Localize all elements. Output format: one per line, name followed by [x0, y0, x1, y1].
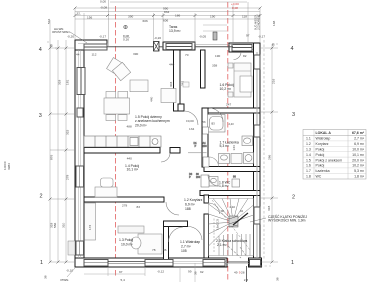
svg-text:1.7: 1.7: [306, 169, 311, 173]
svg-text:286: 286: [268, 155, 272, 160]
svg-text:49: 49: [234, 271, 238, 275]
svg-text:186: 186: [175, 14, 180, 18]
svg-text:303: 303: [169, 82, 173, 87]
svg-text:2,1 m²: 2,1 m²: [217, 243, 227, 247]
window: right wall bathroom: [254, 125, 260, 137]
svg-text:5,3 m²: 5,3 m²: [354, 169, 365, 173]
svg-text:278: 278: [122, 204, 127, 208]
armchair rotated a: [107, 58, 125, 76]
svg-text:-0,20: -0,20: [154, 36, 161, 40]
nightstand a: [228, 63, 233, 68]
svg-text:10,1 m²: 10,1 m²: [127, 168, 139, 172]
patio slider: bottom living thin line: [108, 260, 145, 262]
svg-text:112: 112: [92, 53, 97, 57]
svg-text:78: 78: [152, 248, 156, 252]
svg-text:WYSOKOŚCI MIN. 1,9m: WYSOKOŚCI MIN. 1,9m: [268, 218, 306, 223]
svg-text:181: 181: [66, 80, 70, 85]
svg-text:8,08: 8,08: [232, 6, 238, 10]
svg-text:4: 4: [39, 47, 42, 53]
sink wc: [232, 179, 240, 187]
svg-text:70: 70: [185, 53, 189, 57]
wall: right exterior: [254, 43, 261, 266]
porch steps top: [203, 24, 227, 26]
svg-text:20,0 m²: 20,0 m²: [352, 158, 365, 162]
svg-text:83: 83: [202, 120, 206, 124]
window: bottom room1.3 a: [84, 260, 108, 267]
svg-text:16x17,5: 16x17,5: [216, 219, 220, 230]
svg-text:1: 1: [291, 260, 294, 266]
window: left wall room1.3: [76, 241, 84, 255]
svg-text:10,2 m²: 10,2 m²: [352, 164, 365, 168]
wall: top window segment living: [163, 42, 195, 50]
wall: bathroom left: [202, 108, 208, 167]
desk 1.4: [95, 187, 117, 197]
bathtub: [208, 115, 226, 133]
svg-text:JEDNORODZ.: JEDNORODZ.: [258, 13, 261, 30]
porch step line top: [195, 46, 233, 48]
svg-text:310: 310: [62, 223, 66, 228]
dining chair b: [118, 92, 128, 99]
door: hallway to room1.4: [166, 202, 179, 215]
svg-text:1.3 Pokój: 1.3 Pokój: [119, 238, 133, 242]
door: entrance: [227, 261, 249, 263]
dim line top fourth: [75, 18, 260, 20]
dim ticks top: [74, 7, 262, 18]
svg-text:358: 358: [212, 64, 217, 68]
svg-text:Wiatrołap: Wiatrołap: [316, 137, 331, 141]
dining chair c: [106, 115, 116, 121]
svg-text:2: 2: [40, 194, 43, 200]
wall: bottom right stub: [249, 258, 262, 267]
svg-text:390: 390: [128, 15, 133, 19]
svg-text:10,0 m²: 10,0 m²: [121, 243, 133, 247]
svg-text:2,7 m²: 2,7 m²: [354, 137, 365, 141]
door: hallway to room1.3: [168, 227, 183, 242]
svg-text:440: 440: [127, 157, 132, 161]
svg-text:0,00: 0,00: [100, 0, 106, 4]
wall: top-right segment: [229, 43, 260, 52]
door: hallway to wc: [201, 175, 209, 187]
svg-text:Pokój: Pokój: [316, 164, 325, 168]
svg-text:6,9 m²: 6,9 m²: [354, 142, 365, 146]
svg-text:390: 390: [133, 52, 138, 56]
window: right wall bedroom: [254, 55, 260, 69]
svg-text:606: 606: [163, 19, 168, 23]
window: top-left living: [84, 44, 107, 50]
svg-text:200: 200: [203, 145, 208, 148]
svg-text:10,0 m²: 10,0 m²: [352, 148, 365, 152]
wall: bathroom/wc divider: [204, 167, 260, 172]
window: top-right bedroom: [232, 45, 252, 52]
svg-text:97: 97: [119, 270, 123, 274]
wall: wc bottom: [200, 191, 260, 196]
svg-text:3: 3: [292, 112, 295, 118]
svg-text:97: 97: [246, 34, 250, 38]
washer: [244, 153, 254, 164]
svg-text:PIWN.: PIWN.: [61, 278, 70, 282]
svg-text:3: 3: [39, 113, 42, 119]
svg-text:82: 82: [243, 54, 247, 58]
svg-text:247: 247: [226, 103, 231, 107]
door: room 1.6: [209, 108, 223, 122]
wall: stairs left: [204, 195, 209, 203]
extension lines: [74, 8, 76, 40]
wardrobe 1.3: [85, 203, 96, 240]
leader to stairs: [250, 218, 266, 222]
sink bathroom: [242, 136, 253, 146]
svg-text:-0,10: -0,10: [66, 269, 73, 273]
bed 1.6: [234, 63, 251, 97]
svg-text:Korytarz: Korytarz: [316, 142, 329, 146]
svg-text:OPUST.SPAN: OPUST.SPAN: [52, 30, 70, 34]
door: top porch: [234, 52, 242, 60]
svg-text:38: 38: [276, 277, 280, 281]
window: left wall living: [77, 68, 85, 95]
dining chair a: [106, 92, 116, 99]
door: living to room1.4: [161, 153, 170, 162]
porch pillar top: [213, 32, 217, 40]
window: left wall small: [77, 108, 83, 117]
svg-text:R: R: [50, 44, 53, 48]
svg-text:216: 216: [272, 79, 276, 84]
wall: hallway upper left: [201, 50, 206, 88]
svg-text:5,4: 5,4: [121, 278, 126, 282]
svg-text:WC: WC: [316, 175, 322, 179]
section line left: [115, 6, 117, 277]
wall: hallway hook: [178, 104, 184, 111]
svg-text:-0,17: -0,17: [258, 35, 265, 39]
svg-text:488: 488: [127, 125, 132, 129]
svg-text:2,43: 2,43: [229, 122, 235, 126]
wall: top-left segment: [75, 40, 107, 50]
svg-text:168: 168: [272, 21, 276, 26]
canopy dash a: [240, 247, 247, 257]
svg-text:92: 92: [200, 270, 204, 274]
wall: stairs left lower: [204, 214, 209, 258]
svg-text:R: R: [272, 43, 275, 47]
dim line top second: [75, 11, 260, 13]
svg-text:586: 586: [53, 223, 57, 228]
svg-text:86: 86: [163, 248, 167, 252]
stairs outline: [209, 199, 254, 256]
svg-text:105: 105: [181, 249, 187, 253]
svg-text:1.1: 1.1: [306, 137, 311, 141]
wall: room1.3/wiatrolap divider: [164, 221, 169, 264]
svg-text:1.1 Wiatrołap: 1.1 Wiatrołap: [180, 240, 200, 244]
svg-text:-0,08: -0,08: [100, 6, 107, 10]
svg-text:6,9 m²: 6,9 m²: [185, 203, 195, 207]
svg-text:1.3: 1.3: [306, 148, 311, 152]
svg-text:834: 834: [164, 10, 169, 14]
svg-text:1.8: 1.8: [306, 175, 311, 179]
svg-text:440: 440: [150, 97, 154, 102]
terrace edge line: [107, 46, 154, 48]
svg-text:876: 876: [50, 155, 54, 160]
shelf 1.3: [118, 226, 144, 233]
door: hallway to bathroom: [203, 127, 209, 134]
svg-text:LOKAL A: LOKAL A: [316, 131, 332, 135]
door: living to hallway: [184, 111, 198, 125]
sofa a: [130, 80, 148, 92]
svg-text:190: 190: [210, 15, 215, 19]
stairs dashed low-height line: [212, 200, 250, 250]
svg-text:67,6 m²: 67,6 m²: [352, 131, 365, 135]
svg-text:1,8 m²: 1,8 m²: [354, 175, 365, 179]
stairs up arrow dashed: [213, 218, 215, 252]
bidet: [231, 154, 242, 164]
svg-text:2,8: 2,8: [244, 278, 249, 282]
svg-text:28: 28: [241, 271, 245, 275]
window: bottom room1.3 b: [145, 260, 173, 267]
svg-text:200: 200: [196, 176, 201, 179]
svg-text:99: 99: [188, 269, 192, 273]
svg-text:Pokój: Pokój: [316, 153, 325, 157]
stairs winders: [209, 222, 234, 246]
window: top living2: [166, 44, 192, 50]
svg-text:38: 38: [194, 271, 198, 275]
chair 1.4: [101, 178, 114, 187]
svg-text:1: 1: [40, 260, 43, 266]
svg-text:-0,05: -0,05: [199, 35, 206, 39]
svg-text:318: 318: [58, 80, 62, 85]
wall: wiatrolap top stub: [164, 221, 188, 227]
svg-text:38: 38: [44, 275, 48, 279]
svg-text:13,9 m²: 13,9 m²: [169, 29, 181, 33]
svg-text:3984: 3984: [7, 163, 11, 170]
svg-text:318: 318: [267, 206, 271, 211]
svg-text:-0,20: -0,20: [67, 35, 74, 39]
svg-text:190: 190: [215, 54, 220, 58]
window: right wall stairs: [254, 207, 260, 224]
svg-text:516: 516: [47, 19, 51, 24]
svg-text:-0,17: -0,17: [99, 35, 106, 39]
level marker top: [124, 25, 128, 29]
svg-text:1.2: 1.2: [306, 142, 311, 146]
svg-text:10,1 m²: 10,1 m²: [352, 153, 365, 157]
wall: bottom exterior: [75, 258, 227, 267]
svg-text:440: 440: [169, 63, 174, 67]
stairs cut hatch: [229, 216, 238, 227]
svg-text:4: 4: [291, 46, 294, 52]
svg-text:Pokój: Pokój: [316, 148, 325, 152]
svg-text:32,: 32,: [77, 12, 81, 16]
svg-text:1.6: 1.6: [306, 164, 311, 168]
kitchen counter: [84, 136, 161, 147]
svg-text:278: 278: [66, 175, 70, 180]
dim line top overall: [75, 7, 260, 9]
wall: left exterior: [75, 40, 84, 266]
sofa b: [161, 89, 176, 103]
svg-text:B3: B3: [212, 122, 216, 126]
exterior element left: [68, 241, 75, 255]
door: wiatrolap to korytarz: [188, 226, 202, 240]
toilet wc: [209, 177, 218, 187]
svg-text:315: 315: [66, 130, 70, 135]
svg-text:±0,00: ±0,00: [186, 119, 194, 123]
svg-text:2,7 m²: 2,7 m²: [181, 245, 191, 249]
wall: bathroom top: [202, 108, 260, 113]
window: bottom wiatrolap: [203, 260, 225, 267]
wall cavity inner lines: [78, 44, 258, 264]
svg-text:44: 44: [76, 53, 80, 57]
stairs treads lower flight: [218, 236, 220, 256]
svg-text:1.4: 1.4: [306, 153, 311, 157]
svg-text:172: 172: [88, 225, 92, 230]
desk 1.3: [138, 234, 162, 254]
svg-text:83: 83: [137, 205, 141, 209]
svg-text:20,0 m²: 20,0 m²: [135, 124, 147, 128]
svg-text:2.10: 2.10: [230, 205, 236, 209]
svg-text:5,3 m²: 5,3 m²: [220, 144, 230, 148]
svg-text:0,16: 0,16: [123, 38, 129, 42]
svg-text:118: 118: [242, 15, 247, 19]
svg-text:156: 156: [87, 16, 92, 20]
svg-text:606: 606: [143, 19, 148, 23]
svg-text:134: 134: [232, 145, 236, 150]
canopy dash b: [228, 246, 241, 258]
svg-text:Łazienka: Łazienka: [316, 169, 330, 173]
table frame: [303, 130, 366, 180]
svg-text:1.5: 1.5: [306, 158, 311, 162]
svg-text:-0,12: -0,12: [157, 269, 164, 273]
wardrobe 1.6: [240, 76, 252, 92]
wall: room1.4/room1.3 divider: [84, 197, 164, 202]
svg-text:1.2 Korytarz: 1.2 Korytarz: [184, 198, 203, 202]
section line right: [227, 2, 229, 281]
svg-text:1,8 m²: 1,8 m²: [219, 184, 229, 188]
door: korytarz to stairs: [209, 203, 220, 214]
dining table: [104, 98, 130, 114]
svg-text:2: 2: [292, 194, 295, 200]
stairs rail diagonal: [233, 213, 248, 225]
window: left wall room1.4: [76, 166, 84, 187]
wall: living/room1.4 divider: [84, 148, 160, 154]
wall: hallway left stub: [174, 50, 181, 111]
beam line korytarz: [188, 152, 207, 154]
svg-text:134: 134: [189, 127, 194, 131]
porch rail line: [246, 266, 248, 282]
nightstand b: [228, 92, 233, 97]
svg-text:Pokój z aneksem: Pokój z aneksem: [316, 158, 343, 162]
chair 1.3: [131, 237, 141, 249]
dining chair d: [118, 115, 127, 121]
corner hatch top-right: [252, 44, 260, 52]
terrace column: [154, 42, 160, 52]
svg-text:10,2 m²: 10,2 m²: [220, 87, 232, 91]
toilet bathroom: [219, 154, 230, 164]
dim line top rooms: [75, 15, 260, 17]
armchair rotated b: [112, 62, 130, 80]
window: bottom right stub: [250, 260, 261, 267]
svg-text:188: 188: [185, 207, 191, 211]
svg-text:z aneksem kuchennym: z aneksem kuchennym: [135, 119, 170, 123]
